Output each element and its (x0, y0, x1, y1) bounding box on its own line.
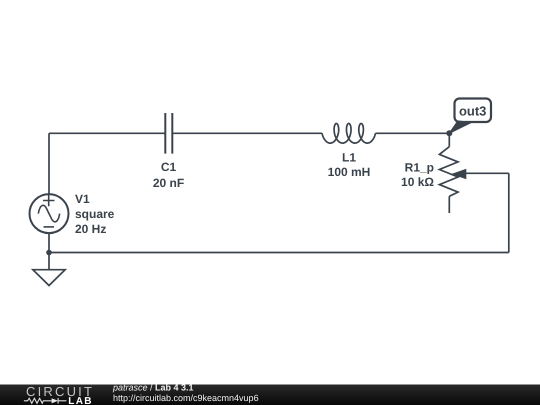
wire right vertical from wiper to bottom return (508, 173, 510, 252)
svg-text:10 kΩ: 10 kΩ (401, 175, 434, 189)
out3 flag box (455, 99, 492, 123)
wire node out3 down to R1_p top (448, 133, 450, 146)
label L1 name (342, 151, 356, 165)
ground symbol (33, 270, 65, 286)
label R1_p name (405, 160, 434, 174)
capacitor C1 plates (165, 113, 172, 154)
svg-text:V1: V1 (75, 192, 90, 206)
svg-text:patrasce / Lab 4 3.1: patrasce / Lab 4 3.1 (112, 382, 194, 392)
label C1 name (161, 160, 177, 174)
svg-text:out3: out3 (459, 104, 486, 119)
svg-text:R1_p: R1_p (405, 160, 434, 174)
label V1 value 20 Hz (75, 222, 106, 236)
wire left vertical from top corner down to V1 top (48, 133, 50, 194)
potentiometer R1_p zigzag body (439, 147, 458, 197)
svg-text:L1: L1 (342, 151, 356, 165)
footer url (113, 393, 259, 403)
CircuitLab logo wordmark CIRCUIT (26, 384, 94, 399)
potentiometer R1_p bottom stub (448, 196, 450, 213)
junction dot at ground node (46, 250, 52, 256)
label out3 net name (459, 104, 486, 119)
inductor L1 coil (322, 124, 375, 144)
label R1_p value 10 kOhm (401, 175, 434, 189)
out3 flag pointer wedge (449, 121, 471, 133)
svg-text:http://circuitlab.com/c9keacmn: http://circuitlab.com/c9keacmn4vup6 (113, 393, 259, 403)
svg-text:100 mH: 100 mH (328, 165, 371, 179)
CircuitLab logo LAB (68, 396, 92, 405)
junction dot at out3 node (446, 130, 452, 136)
V1 sine wave symbol (38, 205, 59, 221)
wire top-left horizontal from source branch to C1 left plate (49, 132, 165, 134)
svg-text:LAB: LAB (68, 396, 92, 405)
footer bar (0, 385, 540, 405)
V1 minus sign (44, 226, 55, 228)
svg-text:20 Hz: 20 Hz (75, 222, 106, 236)
wire V1 bottom to ground junction (48, 233, 50, 252)
CircuitLab logo resistor-diode squiggle (24, 398, 67, 404)
label L1 value 100 mH (328, 165, 371, 179)
label V1 type (75, 207, 115, 221)
svg-text:square: square (75, 207, 115, 221)
label V1 name (75, 192, 90, 206)
footer title patrasce / Lab 4 3.1 (112, 382, 194, 392)
wire ground junction down to ground symbol (48, 253, 50, 270)
V1 source circle (30, 194, 69, 233)
wire bottom horizontal return (49, 252, 509, 254)
V1 plus sign (43, 195, 55, 207)
svg-text:C1: C1 (161, 160, 177, 174)
wire L1 to node out3 (375, 132, 449, 134)
potentiometer R1_p wiper arrowhead (451, 169, 466, 180)
wire wiper arrow to right vertical (465, 172, 509, 174)
wire C1 right plate to L1 (172, 132, 322, 134)
label C1 value 20 nF (153, 176, 184, 190)
svg-text:20 nF: 20 nF (153, 176, 184, 190)
